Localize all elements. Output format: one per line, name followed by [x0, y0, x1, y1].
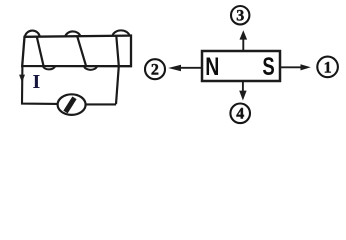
svg-text:2: 2: [151, 62, 159, 79]
svg-text:N: N: [205, 52, 219, 80]
svg-text:3: 3: [236, 8, 244, 25]
svg-text:I: I: [33, 71, 41, 93]
svg-text:S: S: [262, 52, 274, 80]
svg-text:4: 4: [236, 106, 244, 123]
svg-text:1: 1: [324, 59, 332, 76]
